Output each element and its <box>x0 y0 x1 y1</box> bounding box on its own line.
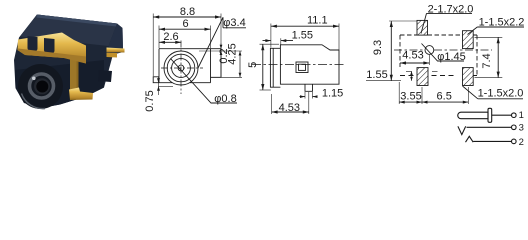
front view left lug <box>153 77 159 83</box>
circle phi3.4 <box>172 59 191 78</box>
pad top-right 1.5x2.2 <box>463 31 474 49</box>
dashed outline right edge <box>476 35 478 76</box>
pin 3 switch V contact <box>458 126 466 134</box>
svg-text:1.15: 1.15 <box>322 87 343 99</box>
svg-text:5: 5 <box>247 62 259 68</box>
hole phi1.45 <box>425 46 434 55</box>
dim 1.55 side <box>263 38 294 44</box>
jack photo: right side face <box>109 24 124 55</box>
svg-text:11.1: 11.1 <box>307 15 328 27</box>
bottom gold foot <box>69 88 93 101</box>
svg-text:4.25: 4.25 <box>227 43 239 64</box>
dim 4.53 footprint <box>400 55 429 65</box>
svg-text:2-1.7x2.0: 2-1.7x2.0 <box>428 3 474 15</box>
right gold fork lug <box>107 48 125 53</box>
pin 3 wire <box>467 126 512 128</box>
svg-text:6: 6 <box>183 18 189 30</box>
horizontal centerline <box>161 67 203 69</box>
pin 2 wire <box>473 140 511 142</box>
dim 1.15 <box>300 92 318 99</box>
label 1-1.5x2.2 leader <box>468 27 525 35</box>
svg-text:8.8: 8.8 <box>180 6 195 18</box>
svg-text:4.53: 4.53 <box>402 49 423 61</box>
barrel rim light arc <box>22 94 46 109</box>
barrel hole <box>36 81 48 93</box>
jack photo: top slab facet <box>20 15 117 47</box>
jack photo: lower front shading <box>15 60 104 108</box>
plug collar bar <box>488 108 492 122</box>
dim 1.55 footprint <box>366 71 438 80</box>
svg-text:1.55: 1.55 <box>292 30 313 42</box>
dim 7.4 <box>475 37 503 77</box>
pad bottom-left 1.7x2.0 <box>417 68 428 86</box>
svg-text:6.5: 6.5 <box>437 90 452 102</box>
circle phi0.8 <box>178 65 184 71</box>
bright gold contact band <box>18 33 87 64</box>
svg-text:φ3.4: φ3.4 <box>223 17 245 29</box>
label 2-1.7x2.0 leader <box>421 13 472 33</box>
pin 1 terminal circle <box>512 113 517 118</box>
dim 5 side <box>260 44 280 90</box>
outer circle (barrel face) <box>164 51 198 85</box>
svg-text:3: 3 <box>519 123 524 134</box>
pin 3 terminal circle <box>512 125 517 130</box>
svg-text:3.55: 3.55 <box>400 90 421 102</box>
gold vertical strip <box>70 50 79 93</box>
svg-text:0.75: 0.75 <box>144 90 156 111</box>
svg-text:2.6: 2.6 <box>163 31 178 43</box>
pin 1 wire <box>492 114 512 116</box>
barrel ring <box>30 74 54 98</box>
band dark tab 1 <box>28 36 38 51</box>
svg-text:1-1.5x2.2: 1-1.5x2.2 <box>479 17 525 29</box>
dim 3.55 and 6.5 <box>399 82 468 104</box>
side view barrel (sleeve) <box>270 48 280 87</box>
side view body with chamfer <box>280 45 339 84</box>
jack photo: main body silhouette <box>14 15 123 108</box>
svg-text:2: 2 <box>519 137 524 148</box>
dim 11.1 <box>271 24 339 50</box>
pad top-center 1.7x2.0 <box>417 20 428 35</box>
leader phi3.4 <box>198 17 246 68</box>
band dark tab 2 <box>44 38 55 53</box>
dashed pad row line bottom <box>400 75 477 77</box>
dim 0.2 / 4.25 right side <box>199 44 242 78</box>
svg-text:4.53: 4.53 <box>279 102 300 114</box>
svg-text:1.55: 1.55 <box>366 69 387 81</box>
svg-text:1: 1 <box>519 110 524 121</box>
dim 2.6 line <box>159 41 181 44</box>
label 1-1.5x2.0 leader <box>463 86 523 99</box>
pin 2 switch inverted-V contact <box>466 136 474 142</box>
svg-text:φ0.8: φ0.8 <box>214 93 236 105</box>
svg-text:φ1.45: φ1.45 <box>437 51 466 63</box>
svg-text:7.4: 7.4 <box>481 53 493 68</box>
pin 2 terminal circle <box>512 139 517 144</box>
horizontal centerline <box>252 64 346 66</box>
leader phi1.45 <box>422 44 465 62</box>
barrel outer circle <box>18 64 63 109</box>
dark side window <box>98 70 112 82</box>
front view right flange <box>211 49 222 78</box>
dashed outline top edge <box>400 34 477 36</box>
band bottom shadow <box>18 49 87 64</box>
bottom tab <box>305 84 313 91</box>
ring circle <box>167 54 195 82</box>
inner square detail <box>296 62 308 73</box>
middle dash-dot centerline <box>394 49 492 51</box>
svg-text:9.3: 9.3 <box>372 40 384 55</box>
dim 8.8 line <box>153 14 221 78</box>
barrel inner <box>34 78 50 94</box>
dim 4.53 side <box>272 92 309 114</box>
plug capsule (tip) <box>458 112 488 119</box>
leader phi0.8 <box>171 59 238 104</box>
vertical centerline <box>180 41 182 95</box>
svg-text:1-1.5x2.0: 1-1.5x2.0 <box>478 87 524 99</box>
dim 0.75 left bottom <box>157 77 173 95</box>
front view main body rectangle <box>159 49 211 83</box>
glint <box>32 77 36 81</box>
dashed outline left edge <box>399 35 401 67</box>
barrel rim line <box>272 48 274 87</box>
pad bottom-right 1.5x2.0 <box>463 68 474 86</box>
dim 6 line <box>159 26 211 49</box>
dim 9.3 <box>389 21 417 81</box>
